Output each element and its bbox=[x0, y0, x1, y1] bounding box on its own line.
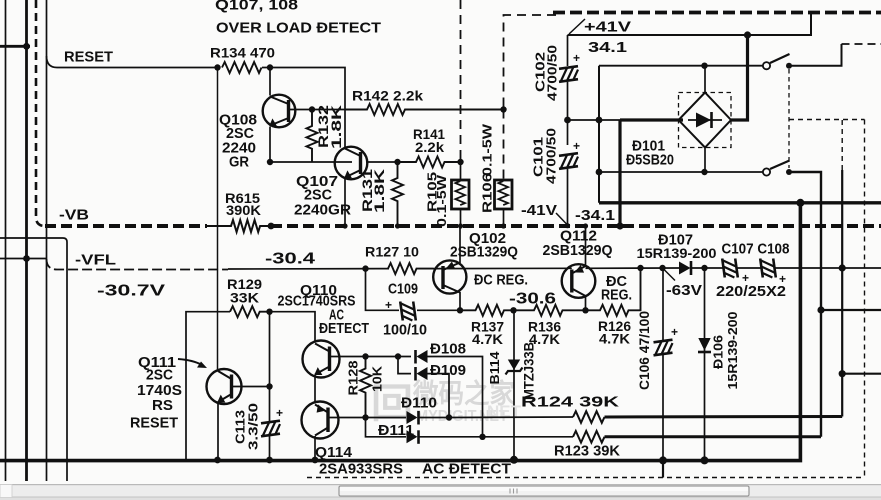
bridge rectifier D101 dashed box bbox=[679, 93, 732, 148]
wire Q111 emitter bbox=[217, 403, 219, 460]
junction dot bbox=[342, 223, 347, 228]
svg-text:15R139-200: 15R139-200 bbox=[637, 245, 717, 261]
wire D111 to junction bbox=[419, 436, 483, 438]
svg-text:Q114: Q114 bbox=[315, 445, 352, 461]
wire Q107 base right row bbox=[366, 161, 398, 163]
dashed link row y=119.5 bbox=[789, 119, 865, 121]
pointer -41V bbox=[556, 213, 568, 225]
junction dot bbox=[23, 255, 30, 262]
wire Q107 emitter to bus bbox=[344, 178, 346, 226]
resistor R615 in bus bbox=[207, 220, 271, 232]
dashed boundary x=460 bbox=[460, 0, 462, 162]
junction dot bbox=[744, 31, 751, 38]
wire Q111 base bbox=[232, 386, 270, 388]
junction dot bbox=[637, 265, 643, 271]
resistor R124 bbox=[573, 411, 605, 423]
junction dot bbox=[701, 169, 707, 175]
svg-text:GR: GR bbox=[229, 155, 249, 171]
svg-text:Đ106: Đ106 bbox=[711, 335, 726, 369]
svg-text:C106 47/100: C106 47/100 bbox=[637, 311, 652, 390]
junction dot bbox=[394, 159, 400, 165]
junction dot bbox=[500, 106, 506, 112]
svg-text:R134 470: R134 470 bbox=[210, 45, 275, 61]
svg-text:0.1-5W: 0.1-5W bbox=[434, 174, 449, 227]
svg-text:+41V: +41V bbox=[584, 19, 631, 36]
wire +B switch row y=65.7 bbox=[599, 65, 763, 67]
node RESET wire bbox=[47, 56, 218, 68]
resistor R127 bbox=[388, 263, 434, 274]
junction dot bbox=[362, 353, 368, 359]
label R132 1.8K rotated bbox=[316, 105, 344, 149]
svg-text:4700/50: 4700/50 bbox=[545, 45, 560, 101]
wire R124 row bbox=[449, 416, 573, 419]
wire R124 right thick bbox=[605, 415, 843, 419]
junction dot bbox=[395, 353, 401, 359]
svg-text:OVER LOAD ĐETECT: OVER LOAD ĐETECT bbox=[216, 20, 381, 37]
wire D107 to C107 bbox=[691, 267, 724, 269]
wire Q102 collector down bbox=[459, 292, 461, 310]
label R105 0.1-5W rotated bbox=[425, 172, 450, 227]
wire to Q107 collector riser bbox=[262, 68, 345, 148]
transistor Q107 bbox=[335, 147, 368, 180]
switch gang link dashed bbox=[788, 69, 790, 168]
dashed border right x=864.5 bbox=[864, 120, 866, 478]
resistor R123 bbox=[573, 431, 605, 443]
transistor Q111 bbox=[207, 369, 242, 404]
node -VFL wire dashed bbox=[47, 259, 229, 270]
junction dot bbox=[458, 223, 463, 228]
wire +41V rail bbox=[568, 12, 812, 36]
capacitor C113 bbox=[261, 421, 280, 437]
svg-text:33K: 33K bbox=[230, 290, 259, 306]
svg-text:Đ5SB20: Đ5SB20 bbox=[626, 153, 674, 169]
svg-text:34.1: 34.1 bbox=[588, 39, 627, 56]
svg-text:-63V: -63V bbox=[666, 283, 702, 299]
svg-text:R124 39K: R124 39K bbox=[521, 394, 619, 411]
svg-text:Đ110: Đ110 bbox=[401, 396, 437, 412]
svg-text:10K: 10K bbox=[370, 365, 385, 392]
svg-text:Q107, 108: Q107, 108 bbox=[215, 0, 298, 14]
wire D109 to drop bbox=[428, 374, 450, 418]
wire Q112 emitter up bbox=[585, 226, 587, 267]
wire R129 row bbox=[186, 312, 230, 460]
svg-text:2SC: 2SC bbox=[146, 368, 173, 384]
scrollbar left gutter bbox=[0, 485, 12, 498]
wire row y=373.7 right bbox=[842, 373, 881, 375]
svg-text:-34.1: -34.1 bbox=[575, 208, 615, 224]
left rail thin bbox=[5, 0, 7, 481]
wire RESET to Q111 collector bbox=[217, 68, 219, 370]
wire row y=310 right bbox=[821, 309, 881, 311]
wire R123 right thick bbox=[605, 435, 822, 438]
junction dot bbox=[457, 159, 463, 165]
svg-text:4.7K: 4.7K bbox=[599, 331, 630, 347]
junction dot bbox=[701, 62, 707, 68]
svg-text:REG.: REG. bbox=[601, 288, 632, 304]
wire AC row y=172 bbox=[599, 171, 763, 173]
svg-text:2240GR: 2240GR bbox=[294, 203, 352, 219]
svg-text:B114: B114 bbox=[487, 351, 502, 385]
zener B114 bbox=[513, 310, 515, 460]
-VB bus dashed left bbox=[45, 224, 207, 228]
svg-text:3.3/50: 3.3/50 bbox=[246, 403, 261, 450]
wire to Q110 collector bbox=[270, 312, 316, 341]
junction dot bbox=[214, 64, 220, 70]
label C102 4700/50 rotated bbox=[533, 45, 560, 101]
junction dot bbox=[701, 456, 709, 464]
bottom bus thick bbox=[0, 203, 800, 461]
wire S1 to dashed stub bbox=[789, 44, 842, 66]
scrollbar thumb bbox=[339, 486, 749, 496]
resistor R105 (fusible box) bbox=[452, 180, 470, 209]
left rail thick bbox=[25, 0, 28, 481]
junction dot bbox=[23, 43, 30, 50]
switch S1 contact dot bbox=[786, 63, 792, 69]
svg-text:+: + bbox=[385, 298, 392, 312]
svg-text:390K: 390K bbox=[226, 203, 261, 218]
junction dot bbox=[266, 309, 272, 315]
wire emitter/base row y=162 bbox=[270, 161, 352, 163]
svg-text:Đ108: Đ108 bbox=[430, 342, 466, 358]
junction dot bbox=[796, 199, 804, 207]
svg-text:-30.6: -30.6 bbox=[509, 291, 556, 308]
wire R106 bottom bbox=[503, 209, 505, 226]
resistor R128 bbox=[360, 357, 371, 418]
switch S1 bbox=[763, 54, 790, 69]
svg-text:ĐETECT: ĐETECT bbox=[319, 321, 369, 337]
junction dot bbox=[501, 223, 506, 228]
junction dot bbox=[457, 307, 463, 313]
svg-text:+: + bbox=[742, 271, 749, 285]
scrollbar grip bbox=[510, 489, 517, 494]
junction dot bbox=[564, 117, 571, 124]
junction dot bbox=[659, 265, 665, 271]
resistor R106 (fusible box) bbox=[495, 180, 513, 209]
svg-text:-41V: -41V bbox=[521, 203, 557, 219]
svg-text:MTZJ33B: MTZJ33B bbox=[522, 342, 537, 400]
svg-text:C107 C108: C107 C108 bbox=[722, 242, 790, 258]
left dashed bus into -VB bbox=[36, 0, 45, 226]
junction dot bbox=[510, 307, 516, 313]
svg-text:AC ĐETECT: AC ĐETECT bbox=[422, 462, 511, 478]
svg-text:R142 2.2k: R142 2.2k bbox=[352, 88, 423, 104]
svg-text:2SC1740SRS: 2SC1740SRS bbox=[278, 294, 356, 310]
resistor R134 bbox=[222, 62, 261, 73]
transistor Q102 bbox=[433, 260, 466, 293]
junction dot bbox=[596, 169, 603, 176]
wire D108 to right rail bbox=[428, 357, 483, 437]
svg-text:1.8K: 1.8K bbox=[372, 169, 387, 213]
junction dot bbox=[565, 223, 570, 228]
junction dot bbox=[267, 64, 273, 70]
thick rail y=202.8 bbox=[599, 201, 881, 204]
top dashed bus +41V bbox=[553, 11, 881, 15]
diode D106 bbox=[704, 268, 706, 461]
diode D108 bbox=[417, 350, 428, 363]
capacitor C108 bbox=[760, 259, 776, 278]
junction dot bbox=[446, 414, 452, 420]
junction dot bbox=[312, 457, 319, 464]
left wire RESET/VFL riser bbox=[46, 0, 48, 481]
bridge rectifier D101 diamond bbox=[679, 93, 732, 148]
wire Q108 base row bbox=[289, 109, 346, 111]
wire Q108 collector riser bbox=[269, 68, 271, 96]
junction dot bbox=[268, 223, 275, 230]
svg-text:220/25X2: 220/25X2 bbox=[716, 284, 786, 300]
svg-text:R128: R128 bbox=[346, 361, 361, 396]
svg-text:+: + bbox=[671, 325, 678, 339]
svg-text:-30.4: -30.4 bbox=[265, 251, 316, 268]
junction dot bbox=[266, 457, 273, 464]
svg-text:4.7K: 4.7K bbox=[472, 331, 503, 347]
wire C107 to C108 bbox=[737, 267, 761, 269]
svg-text:+: + bbox=[276, 406, 283, 420]
wire -VFL solid to R127 bbox=[228, 268, 389, 270]
svg-text:15R139-200: 15R139-200 bbox=[725, 312, 740, 390]
wire bridge + lead thick bbox=[620, 118, 683, 121]
wire Q110 base row bbox=[330, 356, 412, 358]
wire D109 branch bbox=[398, 357, 411, 374]
resistor R131 bbox=[392, 162, 403, 226]
wire R105 top bbox=[460, 162, 462, 180]
svg-text:R106: R106 bbox=[480, 173, 495, 213]
junction dot bbox=[583, 223, 588, 228]
wire C101 to -VB bus bbox=[567, 169, 569, 226]
junction dot bbox=[582, 307, 588, 313]
junction dot bbox=[309, 106, 315, 112]
wire C102 to node bbox=[567, 82, 569, 145]
label C101 4700/50 rotated bbox=[531, 128, 559, 184]
capacitor C106 bbox=[662, 268, 664, 340]
wire Q114 base / D110 row bbox=[328, 417, 406, 419]
resistor R142 bbox=[345, 104, 504, 115]
label R106 0.1-5W rotated bbox=[480, 123, 495, 213]
pointer -63V bbox=[663, 268, 676, 281]
pointer arrow Q111 bbox=[178, 359, 202, 365]
wire Q110 emitter to Q114 bbox=[314, 375, 316, 403]
svg-text:2SA933SRS: 2SA933SRS bbox=[319, 462, 403, 478]
resistor R132 bbox=[307, 110, 318, 163]
wire Q112 collector down bbox=[585, 296, 587, 311]
scrollbar track bbox=[0, 484, 881, 500]
wire R123 row bbox=[483, 436, 574, 438]
junction dot bbox=[395, 223, 400, 228]
junction dot bbox=[616, 222, 623, 229]
wire base row Q102-Q112 bbox=[434, 267, 572, 269]
svg-text:ĐC REG.: ĐC REG. bbox=[474, 273, 528, 289]
-VB bus dashed right bbox=[271, 224, 881, 228]
diode D107 bbox=[679, 262, 691, 275]
capacitor C109 branch bbox=[366, 269, 461, 311]
wire bridge bottom vertex bbox=[704, 148, 706, 173]
junction dot bbox=[510, 456, 518, 464]
wire riser x=599 bbox=[598, 66, 600, 203]
stub y=46 bbox=[0, 45, 30, 48]
dashed border bottom y=477.5 bbox=[307, 477, 865, 479]
stub below bus x=663 bbox=[662, 460, 664, 478]
watermark logo bbox=[371, 378, 515, 426]
dashed boundary corner x=503 bbox=[504, 15, 557, 110]
svg-text:-VB: -VB bbox=[59, 207, 89, 224]
svg-text:+: + bbox=[573, 51, 580, 65]
wire S2 to right riser bbox=[789, 172, 821, 437]
bridge diode symbol bbox=[688, 119, 722, 121]
wire bridge right lead thick bbox=[731, 35, 748, 120]
svg-text:1740S: 1740S bbox=[137, 383, 182, 399]
wire D111 branch bbox=[366, 418, 407, 437]
diode D111 bbox=[407, 430, 418, 443]
diode D109 bbox=[417, 367, 428, 380]
svg-text:2SC: 2SC bbox=[304, 188, 333, 204]
capacitor C107 bbox=[722, 259, 738, 278]
stub y=258 bbox=[0, 258, 47, 260]
svg-text:-VFL: -VFL bbox=[75, 252, 116, 269]
wire D110 to junction bbox=[419, 417, 450, 419]
wire cap node to bridge riser bbox=[568, 119, 621, 121]
pointer +41V bbox=[569, 19, 585, 34]
svg-text:C109: C109 bbox=[388, 282, 418, 298]
svg-text:R127 10: R127 10 bbox=[365, 244, 419, 260]
resistor R141 bbox=[398, 157, 462, 168]
label R131 1.8K rotated bbox=[360, 168, 387, 213]
capacitor C101 bbox=[559, 153, 578, 169]
wire corner y=238 bbox=[0, 238, 67, 481]
svg-text:2.2k: 2.2k bbox=[415, 139, 444, 155]
wire Q114 emitter bbox=[314, 436, 316, 460]
wire bridge thick drop x=620 bbox=[618, 120, 621, 226]
junction dot bbox=[839, 264, 846, 271]
label C113 3.3/50 rotated bbox=[233, 403, 261, 450]
resistor R136 bbox=[514, 305, 586, 316]
junction dot bbox=[701, 265, 707, 271]
transistor Q112 bbox=[562, 264, 596, 298]
svg-text:2SB1329Q: 2SB1329Q bbox=[543, 242, 613, 259]
transistor Q108 bbox=[263, 95, 296, 128]
svg-text:-30.7V: -30.7V bbox=[97, 283, 166, 300]
diode D110 bbox=[407, 411, 418, 424]
junction dot bbox=[839, 370, 846, 377]
switch S2 contact dot bbox=[786, 169, 792, 175]
junction dot bbox=[479, 434, 485, 440]
svg-text:100/10: 100/10 bbox=[383, 323, 427, 339]
svg-text:4700/50: 4700/50 bbox=[544, 128, 559, 184]
wire Q108 emitter bbox=[269, 127, 271, 163]
wire C108 to right bbox=[775, 267, 881, 269]
transistor Q110 bbox=[303, 341, 340, 378]
switch S2 bbox=[763, 161, 790, 176]
junction dot bbox=[362, 265, 368, 271]
resistor R129 bbox=[230, 306, 270, 317]
svg-text:RESET: RESET bbox=[130, 416, 178, 432]
junction dot bbox=[267, 159, 273, 165]
wire R106 top dashed bbox=[503, 110, 505, 181]
svg-text:+: + bbox=[573, 139, 580, 153]
svg-text:Đ109: Đ109 bbox=[430, 363, 466, 379]
svg-text:RS: RS bbox=[152, 398, 173, 414]
transistor Q114 bbox=[302, 402, 339, 439]
wire Q102 emitter up bbox=[459, 226, 461, 263]
resistor R126 bbox=[586, 268, 641, 316]
wire Q111 base riser bbox=[269, 312, 271, 421]
svg-text:RESET: RESET bbox=[64, 50, 113, 66]
svg-text:Đ111: Đ111 bbox=[378, 423, 414, 439]
junction dot bbox=[362, 414, 368, 420]
wire C113 bottom bbox=[269, 436, 271, 460]
dashed wire y=44 right bbox=[842, 43, 881, 45]
resistor R137 bbox=[460, 305, 514, 316]
wire R105 bottom bbox=[460, 209, 462, 226]
svg-text:1.8K: 1.8K bbox=[329, 105, 344, 149]
wire right riser x=842 bbox=[841, 170, 843, 417]
junction dot bbox=[266, 383, 272, 389]
wire base row to D107 bbox=[586, 267, 680, 269]
svg-text:0.1-5W: 0.1-5W bbox=[480, 123, 495, 176]
capacitor C102 bbox=[567, 35, 569, 66]
junction dot bbox=[817, 306, 824, 313]
junction dot bbox=[596, 117, 603, 124]
svg-text:R123 39K: R123 39K bbox=[554, 443, 620, 460]
junction dot bbox=[214, 457, 221, 464]
dashed stub x=842 bbox=[841, 120, 843, 170]
junction dot bbox=[659, 456, 667, 464]
wire bridge top vertex bbox=[704, 66, 706, 93]
